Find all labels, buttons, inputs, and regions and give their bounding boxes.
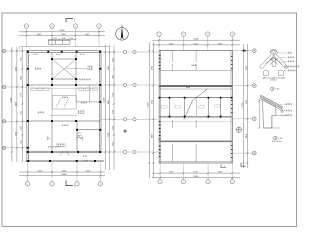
right plan: column grid bubbles (bottom) <box>158 163 235 184</box>
left plan: interior wall row D <box>28 120 100 122</box>
detail 1: right roof slope band <box>273 53 288 69</box>
left plan: leader to void label <box>66 66 93 70</box>
left plan: left wall <box>27 51 29 162</box>
detail 2: wall section hatch <box>263 100 276 128</box>
right plan: interior verticals <box>170 50 221 161</box>
svg-text:4: 4 <box>99 26 100 28</box>
svg-text:1800: 1800 <box>21 76 23 80</box>
left plan: canopy outline <box>20 47 111 50</box>
left plan: interior wall y130 <box>77 129 100 131</box>
mid row leader lines and bubble pairs <box>101 50 158 153</box>
svg-text:14800: 14800 <box>61 174 67 176</box>
right plan: top dimension lines <box>152 39 240 46</box>
svg-text:1700: 1700 <box>53 38 57 40</box>
svg-text:1280: 1280 <box>62 38 66 40</box>
north arrow compass <box>116 25 129 40</box>
detail 1: base dimension <box>263 77 286 81</box>
svg-text:1350: 1350 <box>112 126 114 130</box>
left plan: top wall <box>27 51 101 53</box>
right plan: section flag (bottom right) <box>221 165 226 168</box>
right plan: circled cross symbol <box>236 127 241 132</box>
left plan: right wall <box>100 51 101 153</box>
detail 2: leader labels <box>280 103 292 116</box>
svg-text:3400: 3400 <box>15 102 17 106</box>
left plan: section flag 1 (bottom) <box>66 181 76 189</box>
svg-text:10080: 10080 <box>193 39 199 41</box>
left plan: bay window (top) <box>48 40 70 44</box>
svg-text:3430: 3430 <box>246 134 248 138</box>
svg-text:12300: 12300 <box>104 96 106 102</box>
right plan: slope diagonal <box>184 89 207 120</box>
svg-text:4: 4 <box>232 181 233 183</box>
svg-text:1800: 1800 <box>21 57 23 61</box>
left plan: section flag 1 (top) <box>66 19 76 23</box>
svg-text:3500: 3500 <box>246 66 248 70</box>
left plan: window tag boxes row <box>30 88 98 90</box>
svg-text:1700: 1700 <box>112 110 114 114</box>
left plan: stair marks <box>77 133 82 140</box>
left plan: bottom wall <box>27 151 101 153</box>
svg-text:3330: 3330 <box>246 100 248 104</box>
right plan: row bubbles (right side) <box>232 49 256 155</box>
right plan: outline <box>159 50 232 163</box>
svg-text:1: 1 <box>26 26 27 28</box>
left plan: bottom dimension lines <box>19 170 105 176</box>
right plan: section flag 2 (below right wall) <box>241 163 246 167</box>
right plan: left dimension strings <box>148 42 155 178</box>
left plan: columns <box>27 51 102 162</box>
left plan: top dimension lines <box>19 30 105 40</box>
svg-text:1: 1 <box>27 184 28 186</box>
svg-text:4: 4 <box>232 34 233 36</box>
right plan: dashed tag boxes <box>162 65 221 109</box>
right plan: columns <box>159 97 233 118</box>
svg-text:11260: 11260 <box>148 101 150 107</box>
detail 1: rafters under ridge <box>266 58 282 67</box>
detail 1: ridge tile cap <box>270 50 277 54</box>
left plan: row grid bubbles (left) <box>3 49 27 149</box>
left plan: stairwell X brace <box>52 59 76 79</box>
detail 1: caption <box>271 87 280 91</box>
detail 1: leader labels <box>278 52 300 71</box>
left plan: room label blobs <box>33 54 91 157</box>
svg-text:10080: 10080 <box>193 176 199 178</box>
svg-text:1350: 1350 <box>112 142 114 146</box>
svg-text:3430: 3430 <box>152 134 154 138</box>
left plan: interior vertical walls <box>52 53 101 152</box>
left plan: dining room box with slope marks <box>52 96 76 109</box>
svg-text:1700: 1700 <box>21 93 23 97</box>
right plan: roof band lines <box>159 71 232 162</box>
left plan: right dimension strings <box>104 45 115 170</box>
svg-text:1350: 1350 <box>21 140 23 144</box>
svg-text:4: 4 <box>100 184 101 186</box>
detail 1: wall posts <box>264 71 283 76</box>
svg-text:3: 3 <box>207 34 208 36</box>
svg-text:1800: 1800 <box>112 58 114 62</box>
detail 2: roof slope band <box>259 95 283 113</box>
left plan: landing line <box>50 110 84 115</box>
right plan: bottom dimension lines <box>152 172 240 179</box>
svg-text:1700: 1700 <box>69 38 73 40</box>
svg-text:1700: 1700 <box>21 111 23 115</box>
left plan: door symbols row D <box>47 125 83 141</box>
right plan: column grid bubbles (top) <box>157 32 235 51</box>
svg-text:3600: 3600 <box>15 67 17 71</box>
svg-text:1350: 1350 <box>21 126 23 130</box>
left plan: left dimension strings <box>10 47 23 162</box>
svg-text:1: 1 <box>159 34 160 36</box>
svg-text:2: 2 <box>183 34 184 36</box>
svg-text:2: 2 <box>183 181 184 183</box>
left plan: row grid bubbles (bottom) <box>25 162 102 186</box>
svg-text:3500: 3500 <box>152 66 154 70</box>
svg-text:1: 1 <box>160 181 161 183</box>
left plan: column grid bubbles (top) <box>24 24 101 47</box>
svg-text:3: 3 <box>75 26 76 28</box>
svg-text:3330: 3330 <box>152 100 154 104</box>
right plan: right dimension strings <box>242 44 248 168</box>
svg-text:2: 2 <box>52 184 53 186</box>
svg-text:2: 2 <box>52 26 53 28</box>
svg-text:3600: 3600 <box>108 66 110 70</box>
detail 1: left roof slope band <box>260 53 275 69</box>
svg-text:3300: 3300 <box>108 133 110 137</box>
right plan: wall pochee marks on left wall <box>159 55 161 157</box>
svg-text:11260: 11260 <box>242 101 244 107</box>
detail 2: left dimension line <box>258 99 260 129</box>
svg-text:1800: 1800 <box>112 75 114 79</box>
svg-text:3: 3 <box>77 184 78 186</box>
detail 2: ceiling line <box>263 116 287 129</box>
left plan: porch edge (bottom) <box>26 160 104 161</box>
mid grey dot <box>124 130 127 133</box>
svg-text:14800: 14800 <box>59 30 65 32</box>
left plan: interior wall row E <box>28 84 100 86</box>
svg-text:1700: 1700 <box>112 93 114 97</box>
svg-text:2700: 2700 <box>15 132 17 136</box>
left plan: entry steps <box>60 151 88 161</box>
svg-text:3400: 3400 <box>108 100 110 104</box>
right plan: wall pochee marks on right wall <box>231 56 233 158</box>
svg-text:3: 3 <box>208 181 209 183</box>
svg-text:12300: 12300 <box>10 96 12 102</box>
detail 2: caption <box>272 136 283 142</box>
